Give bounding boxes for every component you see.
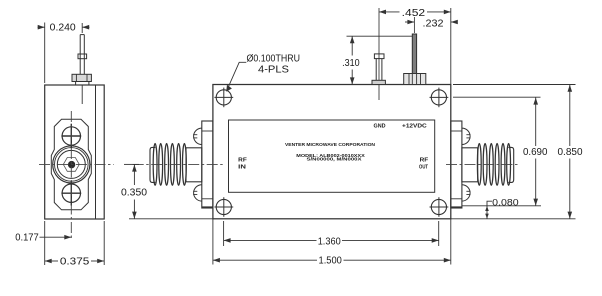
end-view centerlines xyxy=(39,111,114,241)
svg-text:RF: RF xyxy=(420,158,430,164)
centerline RF IN xyxy=(133,163,225,165)
flange bottom edge RF OUT xyxy=(451,206,462,208)
end-view feedthrough pin xyxy=(72,35,91,104)
svg-text:1.360: 1.360 xyxy=(318,236,341,247)
svg-text:+12VDC: +12VDC xyxy=(402,123,427,129)
svg-text:IN: IN xyxy=(238,165,246,171)
dimension 0.350 xyxy=(121,164,213,218)
svg-text:0.177: 0.177 xyxy=(15,232,39,243)
right extension lines xyxy=(451,85,576,219)
dimension .232 xyxy=(405,18,458,29)
end-view housing outline xyxy=(45,85,104,219)
svg-text:0.350: 0.350 xyxy=(121,188,147,199)
svg-text:0.375: 0.375 xyxy=(60,256,90,268)
end-view flange screw bottom xyxy=(61,181,81,206)
mounting hole top-right xyxy=(430,88,449,108)
dimension .310 xyxy=(342,36,412,84)
flange bottom edge RF IN xyxy=(202,206,213,208)
svg-text:1.500: 1.500 xyxy=(319,256,343,267)
svg-text:.232: .232 xyxy=(423,18,444,29)
GND feedthrough pin xyxy=(372,8,385,100)
centerline RF OUT xyxy=(446,163,518,165)
mounting hole bottom-right xyxy=(430,197,449,217)
mounting hole top-left xyxy=(214,88,233,108)
dimension 0.850 xyxy=(558,85,583,219)
dimension 1.360 xyxy=(224,221,439,247)
svg-text:RF: RF xyxy=(238,158,248,164)
svg-text:4-PLS: 4-PLS xyxy=(258,65,290,76)
svg-text:0.240: 0.240 xyxy=(50,22,76,33)
svg-text:0.850: 0.850 xyxy=(558,147,583,158)
hole callout 0.100 THRU 4-PLS xyxy=(226,54,300,92)
svg-text:.452: .452 xyxy=(402,8,426,19)
svg-text:Ø0.100THRU: Ø0.100THRU xyxy=(247,54,301,65)
svg-text:GND: GND xyxy=(374,123,386,129)
dimension 0.375 xyxy=(45,221,104,268)
svg-text:0.080: 0.080 xyxy=(492,197,519,208)
dimension 0.240 xyxy=(38,22,90,83)
end-view flange screw top xyxy=(61,124,81,149)
svg-text:.310: .310 xyxy=(342,58,360,69)
label plate xyxy=(229,120,435,192)
dimension .452 xyxy=(379,8,451,84)
mounting hole bottom-left xyxy=(214,197,233,217)
dimension 0.690 xyxy=(523,97,548,205)
+12VDC feedthrough pin xyxy=(404,17,426,85)
front-view housing outline xyxy=(213,85,451,219)
dimension 0.177 xyxy=(15,232,71,243)
svg-text:S/N00000, M/N000X: S/N00000, M/N000X xyxy=(307,156,362,161)
dimension 0.080 xyxy=(485,197,519,218)
SMA connector RF OUT xyxy=(451,121,514,208)
label plate text xyxy=(238,123,429,170)
svg-text:VENTER MICROWAVE CORPORATION: VENTER MICROWAVE CORPORATION xyxy=(285,142,376,147)
SMA connector RF IN xyxy=(150,121,213,208)
dimension 1.500 xyxy=(213,219,451,267)
svg-text:0.690: 0.690 xyxy=(523,147,548,158)
svg-text:OUT: OUT xyxy=(419,165,429,171)
end-view SMA flange xyxy=(51,119,91,210)
end-view SMA connector rings xyxy=(53,146,90,183)
